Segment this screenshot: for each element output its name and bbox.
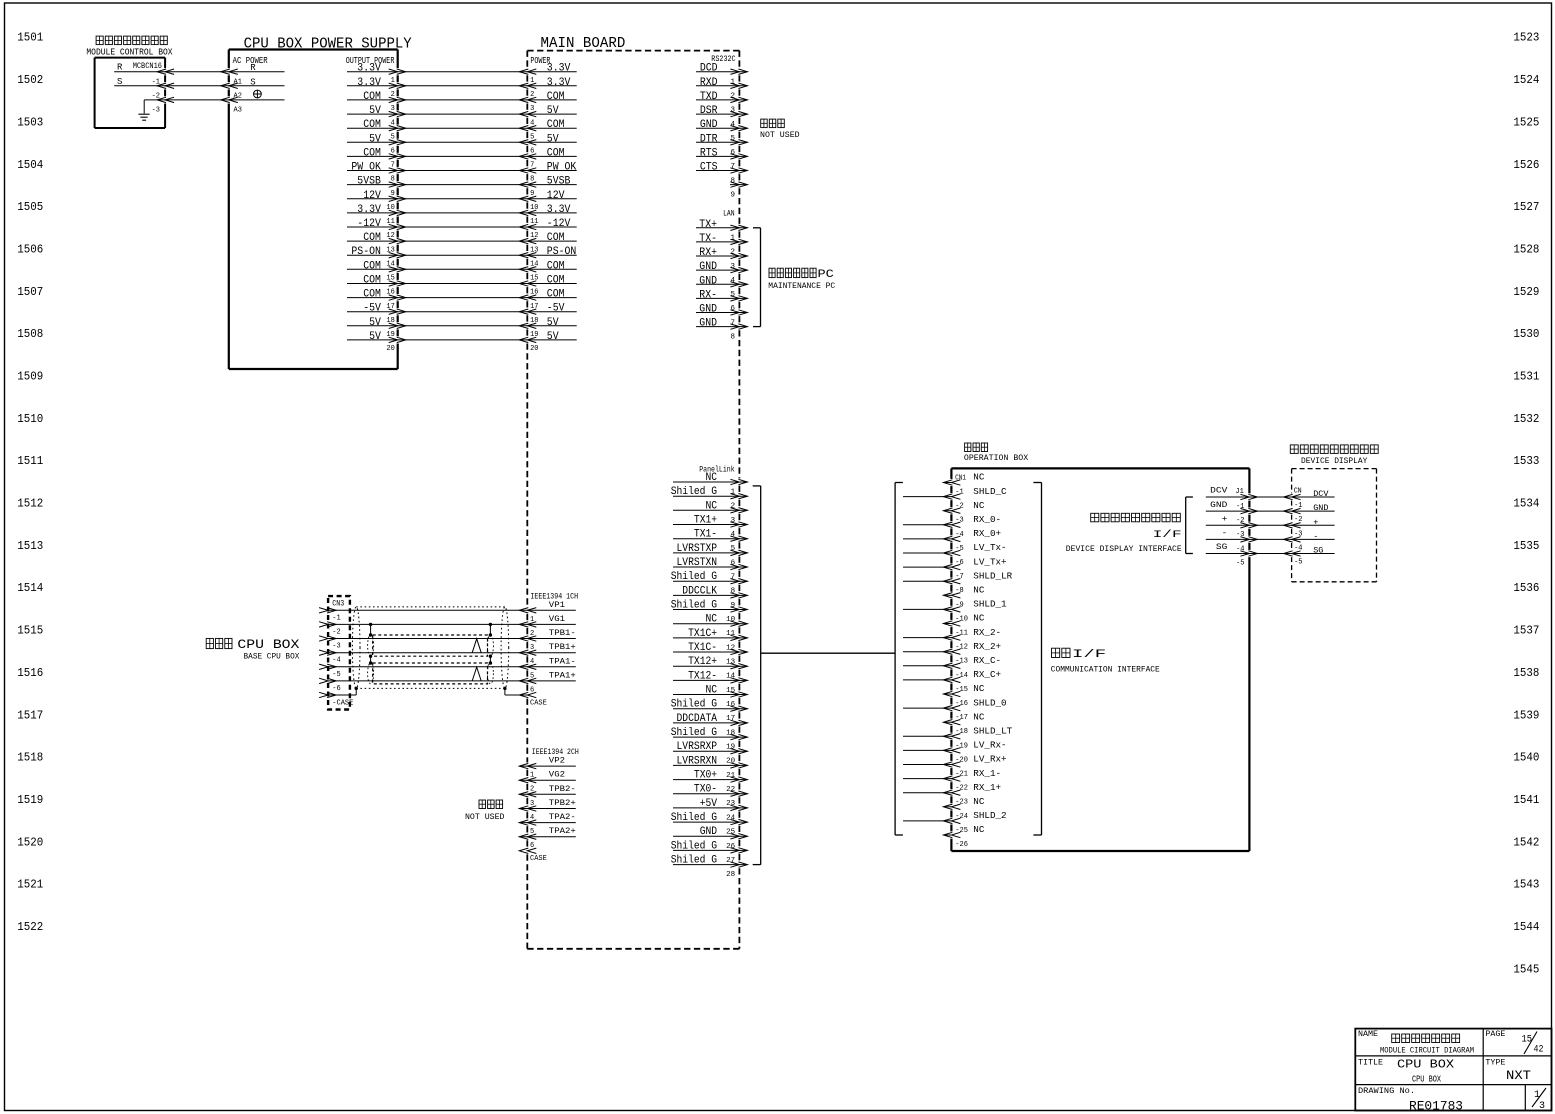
svg-text:25: 25: [726, 829, 736, 837]
svg-text:1518: 1518: [17, 751, 43, 765]
svg-text:1533: 1533: [1513, 454, 1539, 468]
PanelLink pin 2 wire (Shiled G): [671, 486, 748, 511]
svg-text:TX1C+: TX1C+: [688, 628, 717, 640]
label device display (Japanese): [1290, 445, 1298, 454]
J1 group bracket: [1186, 497, 1193, 554]
svg-text:28: 28: [726, 871, 735, 879]
CN1 pin 1 stub (NC): [943, 473, 985, 497]
CN1 pin 23 wire (RX_1+): [903, 783, 1001, 807]
svg-text:1545: 1545: [1513, 962, 1539, 976]
svg-text:COM: COM: [363, 232, 381, 244]
power wire pin 4 (5V) supply OUTPUT POWER to main board POWER: [347, 105, 577, 127]
svg-text:-: -: [1222, 528, 1228, 538]
svg-text:DTR: DTR: [700, 133, 718, 145]
svg-text:1516: 1516: [17, 666, 43, 680]
power wire pin 2 (3.3V) supply OUTPUT POWER to main board POWER: [347, 77, 577, 99]
LAN pin 6 wire (RX-): [696, 289, 747, 313]
svg-text:TITLE: TITLE: [1358, 1058, 1383, 1067]
twisted pair B shield dashed outline: [368, 635, 494, 656]
svg-text:TPB2-: TPB2-: [549, 785, 576, 794]
svg-text:9: 9: [730, 191, 735, 199]
svg-text:3.3V: 3.3V: [357, 204, 381, 216]
svg-text:CASE: CASE: [530, 855, 547, 863]
svg-text:Shiled G: Shiled G: [671, 855, 717, 867]
svg-text:NC: NC: [973, 586, 985, 596]
svg-text:22: 22: [726, 786, 735, 794]
svg-text:-12V: -12V: [357, 218, 381, 230]
svg-text:Shiled G: Shiled G: [671, 840, 717, 852]
LAN pin 2 wire (TX-): [696, 233, 747, 257]
IEEE1394 2CH pin 6 stub (TPA2+) unused: [519, 827, 576, 850]
svg-text:GND: GND: [699, 318, 717, 330]
svg-text:3.3V: 3.3V: [547, 77, 571, 89]
svg-text:SHLD_LR: SHLD_LR: [973, 571, 1013, 581]
svg-text:PC: PC: [818, 269, 835, 281]
svg-text:1528: 1528: [1513, 243, 1539, 257]
PanelLink pin 26 wire (GND): [673, 826, 747, 851]
svg-text:GND: GND: [1210, 500, 1227, 510]
svg-text:TX12-: TX12-: [688, 670, 717, 682]
svg-text:TX1C-: TX1C-: [688, 642, 717, 654]
svg-text:1520: 1520: [17, 835, 43, 849]
svg-text:TPB1+: TPB1+: [549, 643, 576, 652]
svg-text:LVRSTXN: LVRSTXN: [677, 557, 718, 569]
CN1 pin 6 wire (LV_Tx-): [903, 543, 1007, 567]
svg-text:5V: 5V: [547, 317, 559, 329]
svg-text:10: 10: [726, 616, 736, 624]
PanelLink pin 18 wire (DDCDATA): [673, 713, 747, 738]
svg-text:TPA1+: TPA1+: [549, 671, 576, 680]
svg-text:1508: 1508: [17, 327, 43, 341]
svg-text:COMMUNICATION INTERFACE: COMMUNICATION INTERFACE: [1051, 665, 1160, 675]
svg-text:1539: 1539: [1513, 708, 1539, 722]
svg-text:LV_Tx+: LV_Tx+: [973, 557, 1006, 567]
svg-text:GND: GND: [1313, 503, 1328, 513]
svg-text:8: 8: [730, 333, 735, 341]
svg-text:SHLD_LT: SHLD_LT: [973, 727, 1013, 737]
svg-text:VG2: VG2: [549, 771, 565, 780]
svg-text:NOT USED: NOT USED: [760, 130, 800, 140]
svg-text:1535: 1535: [1513, 539, 1539, 553]
svg-text:5VSB: 5VSB: [357, 176, 381, 188]
main board dashed outline: [527, 51, 739, 949]
svg-text:S: S: [250, 77, 255, 87]
svg-text:1537: 1537: [1513, 624, 1539, 638]
svg-text:1542: 1542: [1513, 835, 1539, 849]
IEEE1394 2CH CASE pin stub: [519, 848, 547, 863]
svg-text:-3: -3: [152, 107, 160, 115]
svg-text:-5: -5: [1294, 559, 1302, 567]
MCBCN16 pin -3 wire protective earth: [144, 97, 284, 114]
power wire pin 16 (COM) supply OUTPUT POWER to main board POWER: [347, 275, 577, 297]
svg-text:1505: 1505: [17, 200, 43, 214]
svg-text:-5V: -5V: [547, 303, 565, 315]
svg-text:TPA1-: TPA1-: [549, 657, 576, 666]
title block TYPE cell NXT: [1485, 1058, 1531, 1083]
CN1 pin 8 wire (SHLD_LR): [903, 571, 1013, 595]
svg-text:COM: COM: [547, 119, 565, 131]
svg-text:RXD: RXD: [700, 77, 718, 89]
power wire pin 5 (COM) supply OUTPUT POWER to main board POWER: [347, 119, 577, 141]
svg-text:SG: SG: [1216, 542, 1227, 552]
CN1 cable group bracket left: [895, 483, 903, 836]
svg-text:1513: 1513: [17, 539, 43, 553]
shield drain connections VG1 to pair shields with junction dots: [369, 623, 492, 665]
svg-text:LV_Rx-: LV_Rx-: [973, 741, 1006, 751]
connector CN3 dashed box (base cpu box side): [328, 596, 350, 709]
RS232C pin 1 wire (DCD): [696, 63, 747, 87]
svg-text:5V: 5V: [369, 317, 381, 329]
svg-text:DSR: DSR: [700, 105, 718, 117]
svg-text:20: 20: [726, 758, 736, 766]
svg-text:COM: COM: [547, 289, 565, 301]
svg-text:-4: -4: [332, 657, 340, 665]
svg-text:RX_0+: RX_0+: [973, 529, 1001, 539]
svg-text:TX0+: TX0+: [694, 770, 717, 782]
svg-text:TX12+: TX12+: [688, 656, 717, 668]
svg-text:GND: GND: [699, 275, 717, 287]
svg-text:RX_C+: RX_C+: [973, 670, 1001, 680]
svg-text:NC: NC: [706, 500, 718, 512]
PanelLink pin 5 wire (TX1-): [673, 529, 747, 554]
IEEE1394 1CH pin 2 wire (VG1) to CN3: [319, 615, 576, 638]
svg-text:3: 3: [730, 263, 735, 271]
AC POWER pin A1 label R with arrow: [221, 63, 256, 86]
power wire pin 3 (COM) supply OUTPUT POWER to main board POWER: [347, 91, 577, 113]
PanelLink pin 8 wire (Shiled G): [671, 571, 748, 596]
svg-text:R: R: [250, 63, 256, 73]
LAN cable group bracket: [753, 228, 761, 327]
twisted pair A shield dashed outline: [368, 663, 494, 684]
IEEE1394 1CH pin 3 wire (TPB1-) to CN3: [319, 629, 576, 652]
power wire pin 13 (COM) supply OUTPUT POWER to main board POWER: [347, 232, 577, 254]
PanelLink pin 28 wire (Shiled G): [671, 855, 748, 880]
CN1 pin 5 wire (RX_0+): [903, 529, 1001, 553]
IEEE1394 2CH pin 1 stub (VP2) unused: [519, 757, 576, 780]
device display wire J1 pin 2 to CN pin 2 (GND): [1206, 500, 1335, 525]
svg-text:NC: NC: [973, 614, 985, 624]
svg-text:5V: 5V: [369, 105, 381, 117]
svg-text:CN3: CN3: [332, 600, 344, 609]
svg-text:TPB2+: TPB2+: [549, 799, 576, 808]
svg-text:9: 9: [731, 602, 736, 610]
AC POWER pin A3 protective-earth symbol with arrow: [221, 90, 261, 114]
svg-text:TXD: TXD: [700, 91, 718, 103]
svg-text:SHLD_2: SHLD_2: [973, 811, 1006, 821]
CN1 pin 26 stub (NC): [943, 825, 985, 849]
IEEE1394 2CH pin 5 stub (TPA2-) unused: [519, 813, 576, 836]
svg-text:GND: GND: [700, 826, 718, 838]
svg-text:COM: COM: [363, 275, 381, 287]
svg-text:-: -: [1313, 531, 1318, 541]
svg-text:-26: -26: [955, 841, 968, 849]
svg-text:21: 21: [726, 772, 736, 780]
CN1 pin 18 stub (NC): [943, 712, 985, 736]
svg-text:15: 15: [726, 687, 736, 695]
svg-text:1517: 1517: [17, 708, 43, 722]
CN1 pin 4 wire (RX_0-): [903, 515, 1001, 539]
svg-text:I/F: I/F: [1072, 649, 1106, 661]
RS232C pin 7 wire (RTS): [696, 147, 747, 171]
svg-text:Shiled G: Shiled G: [671, 812, 717, 824]
svg-text:COM: COM: [547, 147, 565, 159]
svg-text:TPB1-: TPB1-: [549, 629, 576, 638]
svg-text:DCV: DCV: [1313, 489, 1329, 499]
cpu box power supply outline: [229, 50, 398, 370]
LAN pin 8 wire (GND): [696, 318, 747, 342]
CN1 pin 15 wire (RX_C+): [903, 670, 1001, 694]
svg-text:-6: -6: [332, 685, 340, 693]
svg-text:RX_1-: RX_1-: [973, 769, 1001, 779]
svg-text:3.3V: 3.3V: [547, 63, 571, 75]
CN1 pin 13 wire (RX_2+): [903, 642, 1001, 666]
svg-text:12V: 12V: [547, 190, 565, 202]
cable outer shield dotted outline: [352, 607, 508, 689]
twist symbol pair B: [472, 639, 481, 653]
LAN pin 1 wire (TX+): [696, 219, 747, 243]
svg-text:20: 20: [530, 345, 538, 353]
CN1 pin 12 wire (RX_2-): [903, 628, 1001, 652]
svg-text:TPA2+: TPA2+: [549, 827, 576, 836]
svg-text:1540: 1540: [1513, 751, 1539, 765]
svg-text:MODULE CONTROL BOX: MODULE CONTROL BOX: [86, 47, 173, 57]
svg-text:PAGE: PAGE: [1485, 1030, 1505, 1039]
CN1 pin 9 stub (NC): [943, 586, 985, 610]
svg-text:A2: A2: [234, 92, 242, 100]
svg-text:MAIN BOARD: MAIN BOARD: [541, 35, 626, 52]
PanelLink pin 22 wire (TX0+): [673, 770, 747, 795]
svg-text:GND: GND: [699, 261, 717, 273]
svg-text:+: +: [1313, 517, 1318, 527]
svg-text:1501: 1501: [17, 31, 43, 45]
svg-text:LVRSRXN: LVRSRXN: [677, 755, 718, 767]
svg-text:14: 14: [726, 673, 736, 681]
svg-text:RX_2-: RX_2-: [973, 628, 1001, 638]
svg-text:17: 17: [726, 715, 735, 723]
svg-text:1504: 1504: [17, 158, 43, 172]
svg-text:19: 19: [726, 744, 735, 752]
svg-text:NC: NC: [706, 614, 718, 626]
svg-text:MODULE CIRCUIT DIAGRAM: MODULE CIRCUIT DIAGRAM: [1380, 1046, 1474, 1056]
CN1 pin 24 stub (NC): [943, 797, 985, 821]
svg-text:CTS: CTS: [700, 162, 718, 174]
operation box outline: [951, 468, 1249, 851]
device display dashed outline: [1292, 469, 1377, 582]
CN1 pin 25 wire (SHLD_2): [903, 811, 1007, 835]
svg-text:NC: NC: [973, 684, 985, 694]
svg-text:5V: 5V: [369, 133, 381, 145]
PanelLink pin 12 wire (TX1C+): [673, 628, 747, 653]
svg-text:A3: A3: [234, 107, 242, 115]
module control box title (Japanese): [96, 36, 103, 45]
label maintenance PC (Japanese): [769, 268, 775, 277]
svg-text:SHLD_C: SHLD_C: [973, 487, 1007, 497]
svg-text:PW_OK: PW_OK: [351, 162, 381, 174]
label base cpu box (Japanese): [206, 638, 213, 648]
title block NAME cell: [1358, 1030, 1474, 1055]
svg-text:1522: 1522: [17, 920, 43, 934]
PanelLink pin 14 wire (TX12+): [673, 656, 747, 681]
PanelLink pin 16 wire (NC): [673, 685, 747, 710]
svg-text:1530: 1530: [1513, 327, 1539, 341]
RS232C pin 9 stub (unused): [730, 182, 747, 200]
svg-text:1521: 1521: [17, 878, 43, 892]
svg-text:SG: SG: [1313, 546, 1323, 556]
svg-text:DCV: DCV: [1210, 486, 1228, 496]
svg-text:DEVICE DISPLAY INTERFACE: DEVICE DISPLAY INTERFACE: [1066, 544, 1182, 554]
svg-text:TX1+: TX1+: [694, 515, 717, 527]
svg-text:COM: COM: [363, 119, 381, 131]
svg-text:COM: COM: [363, 91, 381, 103]
device display wire J1 pin 4 to CN pin 4 (-): [1206, 528, 1335, 553]
svg-text:CPU BOX: CPU BOX: [1412, 1073, 1441, 1084]
svg-text:1536: 1536: [1513, 581, 1539, 595]
svg-text:24: 24: [726, 814, 736, 822]
PanelLink pin 20 wire (LVRSRXP): [673, 741, 747, 766]
svg-text:CN: CN: [1294, 488, 1302, 496]
svg-text:1524: 1524: [1513, 73, 1539, 87]
svg-text:1527: 1527: [1513, 200, 1539, 214]
PanelLink pin 11 wire (NC): [673, 614, 747, 639]
svg-text:NC: NC: [973, 501, 985, 511]
power wire pin 6 (5V) supply OUTPUT POWER to main board POWER: [347, 133, 577, 155]
device display wire J1 pin 1 to CN pin 1 (DCV): [1206, 486, 1335, 511]
ground symbol in module control box: [138, 100, 149, 120]
svg-text:1531: 1531: [1513, 370, 1539, 384]
RS232C pin 8 wire (CTS): [696, 162, 747, 186]
module control box outline: [95, 58, 166, 128]
CN1 pin 17 wire (SHLD_0): [903, 698, 1007, 722]
svg-text:1507: 1507: [17, 285, 43, 299]
CN1 pin 3 stub (NC): [943, 501, 985, 525]
svg-text:1512: 1512: [17, 497, 43, 511]
IEEE1394 1CH CASE pin and shield connection: [503, 687, 547, 708]
CN1 pin 14 wire (RX_C-): [903, 656, 1001, 680]
CN1 pin 2 wire (SHLD_C): [903, 487, 1007, 511]
power wire pin 7 (COM) supply OUTPUT POWER to main board POWER: [347, 147, 577, 169]
svg-text:DEVICE DISPLAY: DEVICE DISPLAY: [1301, 456, 1367, 466]
svg-text:42: 42: [1534, 1045, 1544, 1056]
svg-text:1519: 1519: [17, 793, 43, 807]
CN1 pin 7 wire (LV_Tx+): [903, 557, 1007, 581]
svg-text:5V: 5V: [547, 331, 559, 343]
svg-text:RX_1+: RX_1+: [973, 783, 1001, 793]
power wire pin 12 (-12V) supply OUTPUT POWER to main board POWER: [347, 218, 577, 240]
PanelLink pin 25 wire (Shiled G): [671, 812, 748, 837]
svg-text:1544: 1544: [1513, 920, 1539, 934]
svg-text:COM: COM: [363, 147, 381, 159]
svg-text:COM: COM: [547, 275, 565, 287]
RS232C pin 5 wire (GND): [696, 119, 747, 143]
RS232C pin 4 wire (DSR): [696, 105, 747, 129]
svg-text:1515: 1515: [17, 624, 43, 638]
IEEE1394 1CH pin 6 wire (TPA1+) to CN3: [319, 671, 576, 694]
svg-text:-5: -5: [332, 671, 340, 679]
svg-text:RX_C-: RX_C-: [973, 656, 1001, 666]
svg-text:1525: 1525: [1513, 115, 1539, 129]
PanelLink pin 27 wire (Shiled G): [671, 840, 748, 865]
svg-text:1506: 1506: [17, 243, 43, 257]
svg-text:DDCCLK: DDCCLK: [682, 585, 717, 597]
CN1 pin 11 stub (NC): [943, 614, 985, 638]
title block TITLE cell CPU BOX: [1358, 1058, 1454, 1085]
svg-text:RE01783: RE01783: [1409, 1099, 1463, 1114]
svg-text:Shiled G: Shiled G: [671, 699, 717, 711]
PanelLink pin 7 wire (LVRSTXN): [673, 557, 747, 582]
MCBCN16 pin -1 label R and wire R phase: [114, 63, 284, 87]
device display wire J1 pin 5 to CN pin 5 (SG): [1206, 542, 1335, 567]
svg-text:GND: GND: [699, 304, 717, 316]
IEEE1394 1CH pin 1 wire (VP1) to CN3: [319, 601, 576, 624]
PanelLink pin 6 wire (LVRSTXP): [673, 543, 747, 568]
svg-text:RX_2+: RX_2+: [973, 642, 1001, 652]
IEEE1394 2CH pin 4 stub (TPB2+) unused: [519, 799, 576, 822]
power wire pin 8 (PW_OK) supply OUTPUT POWER to main board POWER: [347, 162, 577, 184]
power wire pin 19 (5V) supply OUTPUT POWER to main board POWER: [347, 317, 577, 339]
power wire pin 11 (3.3V) supply OUTPUT POWER to main board POWER: [347, 204, 577, 226]
IEEE1394 1CH pin 4 wire (TPB1+) to CN3: [319, 643, 576, 666]
svg-text:1538: 1538: [1513, 666, 1539, 680]
label communication interface (Japanese): [1052, 648, 1060, 657]
svg-text:NC: NC: [973, 797, 985, 807]
PanelLink pin 15 wire (TX12-): [673, 670, 747, 695]
svg-text:2: 2: [731, 503, 736, 511]
svg-text:COM: COM: [547, 91, 565, 103]
svg-text:Shiled G: Shiled G: [671, 486, 717, 498]
svg-text:1541: 1541: [1513, 793, 1539, 807]
svg-text:RX+: RX+: [699, 247, 717, 259]
PanelLink pin 21 wire (LVRSRXN): [673, 755, 747, 780]
svg-text:COM: COM: [547, 232, 565, 244]
svg-text:+5V: +5V: [700, 798, 718, 810]
svg-text:CPU BOX: CPU BOX: [237, 637, 299, 652]
CN1 pin 19 wire (SHLD_LT): [903, 727, 1013, 751]
svg-text:4: 4: [730, 277, 735, 285]
device display wire J1 pin 3 to CN pin 3 (+): [1206, 514, 1335, 539]
IEEE1394 1CH pin 5 wire (TPA1-) to CN3: [319, 657, 576, 680]
svg-text:-5V: -5V: [363, 303, 381, 315]
LAN pin 3 wire (RX+): [696, 247, 747, 271]
PanelLink pin 4 wire (TX1+): [673, 515, 747, 540]
svg-text:GND: GND: [700, 119, 718, 131]
svg-text:1526: 1526: [1513, 158, 1539, 172]
label IEEE1394 2CH unused (Japanese): [479, 800, 486, 809]
svg-text:1534: 1534: [1513, 497, 1539, 511]
svg-text:LV_Rx+: LV_Rx+: [973, 755, 1006, 765]
svg-text:TPA2-: TPA2-: [549, 813, 576, 822]
svg-text:-2: -2: [332, 628, 340, 636]
label device display interface (Japanese): [1091, 513, 1099, 522]
CN1 pin 21 wire (LV_Rx+): [903, 755, 1007, 779]
svg-text:RX_0-: RX_0-: [973, 515, 1001, 525]
svg-text:20: 20: [386, 345, 394, 353]
PanelLink pin 19 wire (Shiled G): [671, 727, 748, 752]
svg-text:PS-ON: PS-ON: [351, 246, 381, 258]
RS232C pin 3 wire (TXD): [696, 91, 747, 115]
svg-text:1543: 1543: [1513, 878, 1539, 892]
LAN pin 4 wire (GND): [696, 261, 747, 285]
svg-text:DDCDATA: DDCDATA: [677, 713, 718, 725]
svg-text:1511: 1511: [17, 454, 43, 468]
svg-text:NC: NC: [973, 825, 985, 835]
right margin line numbers 1523-1545: [1513, 31, 1539, 977]
svg-text:NAME: NAME: [1358, 1030, 1378, 1039]
CN1 pin 20 wire (LV_Rx-): [903, 741, 1007, 765]
power wire pin 14 (PS-ON) supply OUTPUT POWER to main board POWER: [347, 246, 577, 268]
PanelLink pin 17 wire (Shiled G): [671, 699, 748, 724]
svg-text:7: 7: [730, 319, 735, 327]
svg-text:18: 18: [726, 729, 735, 737]
